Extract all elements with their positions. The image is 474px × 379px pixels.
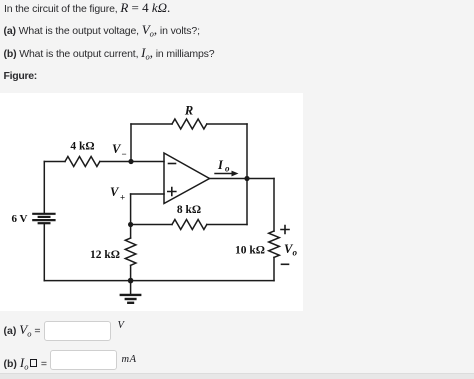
Figure: label: [4, 70, 37, 82]
node V- dot: [128, 159, 133, 164]
svg-text:−: −: [122, 149, 127, 159]
svg-text:I: I: [217, 158, 224, 172]
svg-text:o: o: [293, 248, 298, 258]
wire: feedback left vertical: [130, 124, 132, 162]
wire: battery to bottom rail: [43, 224, 45, 281]
ground: [130, 281, 132, 294]
wire: V+ vertical down to node: [130, 194, 132, 225]
node output dot: [244, 176, 249, 181]
svg-text:8 kΩ: 8 kΩ: [177, 204, 201, 216]
svg-text:6 V: 6 V: [12, 213, 28, 225]
svg-text:V: V: [112, 142, 122, 156]
wire: left vertical to battery: [43, 162, 45, 214]
label + of Vo: [281, 226, 289, 234]
label - of Vo: [282, 263, 289, 265]
wire: output node down to 8k rail: [246, 179, 248, 225]
resistor 12k upper stub: [130, 225, 132, 239]
arrow Io: [215, 173, 234, 175]
svg-text:10 kΩ: 10 kΩ: [235, 245, 265, 257]
question line (a): [4, 22, 200, 39]
unit mA: [122, 354, 137, 365]
resistor 12k: [125, 238, 136, 265]
bottom band: [0, 373, 474, 379]
node ground dot: [128, 278, 134, 284]
wire: V+ node to 8k: [131, 224, 172, 226]
answer row (a): [4, 322, 41, 339]
svg-text:12 kΩ: 12 kΩ: [90, 249, 120, 261]
resistor 10k upper stub: [273, 179, 275, 232]
wire: output from apex: [210, 178, 275, 180]
wire: feedback right vertical: [246, 124, 248, 179]
resistor 8k: [172, 220, 207, 230]
svg-text:V: V: [110, 185, 120, 199]
wire: top feedback left segment: [131, 123, 172, 125]
question line (b): [4, 45, 215, 62]
wire: plus input: [131, 193, 164, 195]
resistor 10k: [269, 231, 280, 257]
answer row (b): [4, 355, 48, 372]
resistor R (feedback): [172, 119, 207, 129]
wire: bottom rail: [44, 280, 274, 282]
input box (b): [50, 350, 118, 370]
op-amp minus sign: [169, 163, 176, 165]
svg-text:+: +: [120, 193, 125, 203]
input box (a): [44, 321, 111, 341]
resistor 12k lower stub: [130, 265, 132, 280]
wire: 8k to output branch: [207, 224, 247, 226]
resistor 4k: [65, 157, 100, 167]
op-amp U1 triangle: [164, 153, 210, 204]
unit V: [118, 320, 124, 331]
svg-text:R: R: [184, 104, 193, 118]
question line 1: [4, 0, 170, 16]
circuit figure: [0, 93, 303, 311]
wire: top feedback right segment: [207, 123, 247, 125]
wire: 4k to op-amp minus input: [100, 161, 164, 163]
svg-text:4 kΩ: 4 kΩ: [70, 141, 94, 153]
op-amp plus sign: [168, 188, 176, 196]
wire: input from corner to 4k: [44, 161, 65, 163]
svg-text:o: o: [225, 164, 230, 174]
resistor 10k lower stub: [273, 257, 275, 280]
battery B1 6V: [33, 214, 54, 223]
node V+ dot: [128, 222, 133, 227]
